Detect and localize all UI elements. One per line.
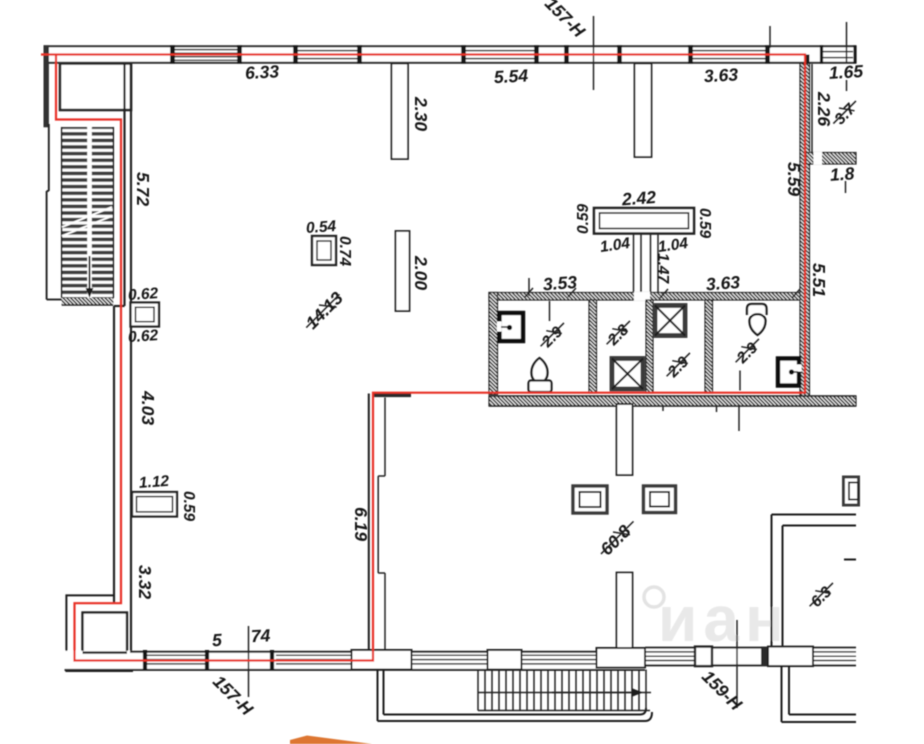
lower unit left boundary [378, 670, 653, 722]
window W4 glazing lines [823, 52, 853, 58]
dim 3.53 ticks [525, 278, 576, 297]
bottom window lines w5 [146, 655, 205, 664]
duct box 0.54 [312, 236, 336, 265]
top exterior wall band [44, 45, 857, 63]
svg-text:0.62: 0.62 [127, 327, 159, 346]
svg-text:2.42: 2.42 [620, 187, 657, 209]
top wall jamb ticks [173, 45, 768, 63]
dim 3.63 ticks [660, 289, 800, 298]
svg-text:0.62: 0.62 [127, 285, 159, 304]
svg-text:2.00: 2.00 [411, 255, 431, 290]
svg-text:4.03: 4.03 [138, 390, 158, 425]
wc1 sink square [497, 313, 523, 341]
main left wall [114, 64, 131, 654]
bathroom bottom wall [489, 396, 856, 406]
bottom window lines w8 [522, 655, 596, 664]
pillar 2.30 [392, 64, 409, 160]
right small room wall [811, 64, 813, 153]
svg-text:6.33: 6.33 [245, 61, 280, 83]
label 3.7 crossed [828, 96, 863, 131]
bathroom divider 2 [646, 300, 653, 393]
svg-text:5.51: 5.51 [809, 263, 829, 297]
bottom ticks small [145, 650, 272, 670]
watermark circle [644, 587, 664, 607]
bathroom divider 1 [589, 300, 597, 393]
stair landing [60, 64, 131, 111]
lower duct box right [644, 486, 676, 513]
lower pillar B [617, 573, 633, 649]
stairwell outer left wall upper [44, 45, 49, 127]
stairwell bottom wall [62, 298, 114, 305]
red unit outline [41, 55, 805, 661]
bathroom left wall [489, 293, 498, 395]
wc4 sink square [778, 359, 802, 386]
small duct box right edge [844, 477, 859, 505]
axis line 159-H [736, 620, 738, 708]
wc1 area label 2.9 [536, 318, 572, 354]
svg-text:1.12: 1.12 [138, 473, 170, 492]
svg-text:5.72: 5.72 [133, 172, 153, 206]
svg-text:0.54: 0.54 [305, 218, 337, 237]
pillar top middle [635, 64, 652, 158]
wc1 toilet [529, 358, 552, 392]
bottom door box 4 [768, 647, 813, 667]
dim extension line right top [846, 22, 848, 63]
wc2 shaft box with X [612, 359, 643, 390]
right wall of unit [800, 64, 810, 406]
shaft stub walls to bathroom [634, 234, 659, 294]
wc4 area label 2.9 [731, 334, 767, 370]
svg-text:1.8: 1.8 [829, 163, 855, 185]
duct box 0.62 [131, 303, 160, 327]
bottom-left step-out wall [66, 595, 133, 671]
svg-text:6.19: 6.19 [351, 507, 371, 541]
bottom window lines w7 [412, 655, 487, 664]
bottom window lines w6 [276, 655, 351, 664]
box bottom edge restore [83, 651, 128, 653]
right room bottom wall [806, 152, 856, 165]
wc1 door leaf [549, 301, 551, 321]
dim tick x770 [769, 26, 771, 48]
bottom small pier [695, 647, 712, 667]
bottom window lines w10 [813, 652, 856, 661]
wc4 toilet [747, 304, 767, 335]
svg-text:1.47: 1.47 [654, 253, 671, 285]
svg-text:1.65: 1.65 [828, 61, 863, 83]
svg-text:5.59: 5.59 [784, 162, 804, 196]
wc3 shaft box with X [655, 306, 685, 336]
lower stairs arrow [552, 688, 643, 696]
svg-text:иан: иан [658, 583, 790, 655]
wc2 area label 2.8 [602, 316, 638, 352]
lower stair hall boundary [477, 670, 479, 711]
lower right room walls [782, 666, 857, 722]
area label 6.3 [805, 578, 841, 614]
orange watermark wedge [290, 736, 372, 744]
bottom door box 1 [352, 650, 412, 670]
axis line 157-H bottom [248, 626, 250, 697]
lower stairs treads [485, 670, 646, 711]
bottom exterior wall band B [645, 647, 856, 667]
bottom window lines w9 [645, 652, 695, 661]
bottom door box 2 [488, 650, 522, 670]
svg-text:3.32: 3.32 [135, 565, 155, 599]
svg-text:3.63: 3.63 [705, 272, 741, 294]
axis line 157-H top [593, 16, 595, 90]
lower stairs bottom line [478, 710, 650, 712]
right lower room walls [772, 515, 857, 649]
window W1 glazing lines [296, 51, 360, 59]
lower stairs mid line [478, 692, 651, 694]
small dash in right room [844, 559, 856, 561]
svg-text:2.26: 2.26 [814, 91, 834, 126]
lower duct box left [573, 486, 607, 513]
pillar 2.00 [396, 231, 410, 311]
wc3 area label 2.9 [662, 348, 698, 384]
stairwell outer left wall lower [47, 124, 62, 300]
lower pillar A [617, 404, 633, 475]
window W3 glazing lines [692, 51, 766, 59]
bathroom divider 3 [705, 300, 713, 393]
bathroom bottom thin wall left [373, 394, 411, 398]
stair flight treads [62, 127, 114, 298]
stair break line [62, 207, 112, 227]
svg-text:5.54: 5.54 [493, 65, 528, 87]
bottom exterior wall band A [65, 651, 646, 671]
svg-text:74: 74 [250, 625, 271, 646]
window W2 glazing lines [464, 51, 535, 59]
area label 60.8 [594, 515, 641, 562]
svg-text:0.59: 0.59 [575, 203, 592, 234]
vent shaft 2.42 [594, 208, 694, 234]
middle wall 6.19 [369, 394, 385, 661]
bottom tick [761, 647, 768, 667]
bottom door box 3 [597, 648, 646, 668]
window W0 glazing lines [173, 50, 240, 61]
stair down arrow [86, 256, 94, 298]
svg-text:0.74: 0.74 [336, 236, 353, 267]
svg-text:5: 5 [212, 630, 223, 650]
svg-text:0.59: 0.59 [180, 491, 197, 522]
room area label 14.13 [300, 288, 347, 335]
svg-text:0.59: 0.59 [696, 208, 713, 239]
landing right wall [124, 64, 126, 111]
svg-text:2.30: 2.30 [411, 96, 431, 131]
svg-text:3.63: 3.63 [703, 64, 738, 86]
duct box 1.12x0.59 [132, 492, 177, 517]
dim line below 1.8 [845, 181, 847, 193]
wc4 partition line [739, 371, 741, 391]
bathroom block top wall [489, 292, 805, 301]
